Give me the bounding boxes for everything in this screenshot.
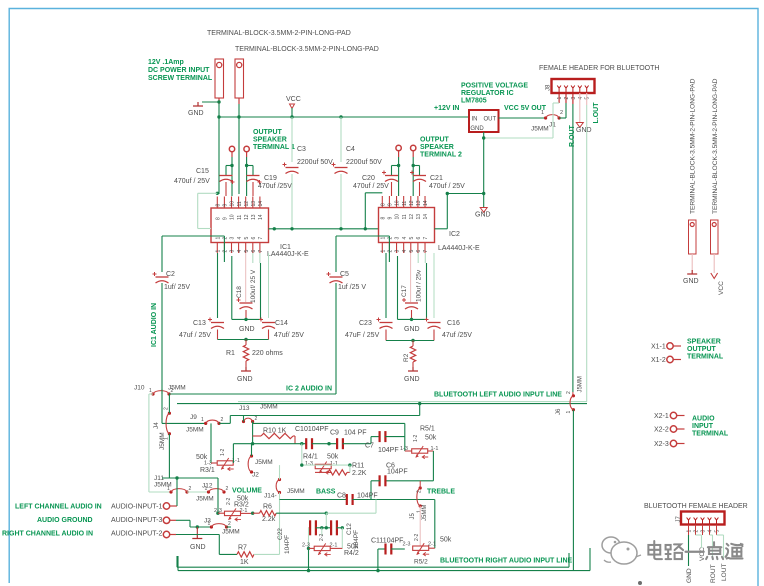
svg-text:6: 6 [251, 237, 257, 240]
svg-text:5: 5 [244, 237, 250, 240]
svg-text:R4/1: R4/1 [303, 454, 318, 461]
capacitor C23 [380, 322, 393, 324]
svg-text:C9: C9 [330, 430, 339, 437]
wire C18 gnd row [232, 318, 261, 320]
svg-text:C14: C14 [275, 320, 288, 327]
svg-text:X1-1: X1-1 [651, 344, 666, 351]
wire J10 left loop [149, 393, 153, 395]
svg-text:TERMINAL-BLOCK-3.5MM-2-PIN-LON: TERMINAL-BLOCK-3.5MM-2-PIN-LONG-PAD [207, 30, 351, 37]
svg-text:2-3: 2-3 [403, 542, 411, 548]
svg-text:BLUETOOTH LEFT AUDIO INPUT LIN: BLUETOOTH LEFT AUDIO INPUT LINE [434, 392, 562, 399]
wire rail 2 [335, 236, 337, 272]
op-amp IC1 LA4440 body [211, 208, 269, 243]
svg-text:3: 3 [701, 530, 707, 533]
svg-text:TERMINAL-BLOCK-3.5MM-2-PIN-LON: TERMINAL-BLOCK-3.5MM-2-PIN-LONG-PAD [690, 78, 697, 214]
svg-text:SPEAKER: SPEAKER [687, 339, 721, 346]
svg-text:J5: J5 [410, 513, 416, 520]
svg-text:R5/2: R5/2 [414, 559, 428, 566]
svg-text:9: 9 [388, 217, 394, 220]
regulator U1 LM7805 body [469, 110, 499, 132]
svg-text:1: 1 [687, 530, 693, 533]
svg-text:J6: J6 [556, 408, 562, 415]
svg-text:2: 2 [223, 237, 229, 240]
capacitor C14 [268, 253, 270, 318]
header J8 pin4 stub [579, 93, 581, 122]
svg-text:470uf / 25V: 470uf / 25V [174, 178, 210, 185]
jumper J5 [419, 486, 422, 489]
IC2 bottom pin stubs [381, 243, 383, 254]
capacitor C4 [340, 117, 342, 162]
wire regulator gnd down [483, 132, 485, 207]
svg-text:J14-: J14- [264, 493, 277, 500]
svg-text:2: 2 [560, 110, 563, 116]
svg-text:1: 1 [557, 97, 563, 100]
svg-text:1: 1 [216, 237, 222, 240]
svg-text:8: 8 [381, 217, 387, 220]
svg-text:2200uf 50V: 2200uf 50V [346, 159, 382, 166]
svg-text:14: 14 [423, 200, 429, 206]
terminal block X3 body [215, 59, 224, 98]
svg-text:R4/2: R4/2 [344, 550, 359, 557]
svg-text:C21: C21 [430, 175, 443, 182]
svg-text:100uf / 25v: 100uf / 25v [416, 269, 423, 302]
svg-text:GND: GND [470, 126, 484, 132]
wire J7 rout [710, 534, 713, 536]
wire J9 to row A [219, 422, 230, 424]
wire IC2 pin2 line [336, 235, 389, 237]
svg-text:6: 6 [416, 250, 422, 253]
svg-text:IC1: IC1 [280, 244, 291, 251]
svg-text:TERMINAL 2: TERMINAL 2 [420, 152, 462, 159]
svg-text:C12: C12 [346, 523, 353, 535]
svg-text:POSITIVE VOLTAGE: POSITIVE VOLTAGE [461, 83, 528, 90]
wire J14 down [279, 465, 281, 479]
svg-text:12: 12 [244, 201, 250, 207]
resistor R2 [412, 341, 414, 347]
svg-text:C3: C3 [297, 146, 306, 153]
svg-text:2200uf 50V: 2200uf 50V [297, 159, 333, 166]
wire C23 C16 row [386, 340, 434, 342]
svg-text:6: 6 [416, 237, 422, 240]
svg-text:4: 4 [402, 250, 408, 253]
svg-text:11: 11 [402, 201, 408, 206]
svg-text:4: 4 [237, 250, 243, 253]
svg-text:J2: J2 [252, 472, 259, 479]
svg-text:C19: C19 [264, 175, 277, 182]
svg-text:1: 1 [164, 437, 170, 440]
svg-text:1: 1 [381, 250, 387, 253]
svg-text:10: 10 [395, 200, 401, 206]
svg-text:3: 3 [571, 97, 577, 100]
svg-text:J4: J4 [153, 422, 160, 429]
IC2 left routing wire [364, 193, 366, 229]
svg-text:FEMALE HEADER FOR BLUETOOTH: FEMALE HEADER FOR BLUETOOTH [539, 65, 659, 72]
svg-text:C7: C7 [365, 443, 374, 450]
wire under IC1 verticals [217, 253, 219, 318]
svg-text:L.OUT: L.OUT [593, 102, 600, 124]
svg-text:5: 5 [244, 250, 250, 253]
svg-text:X2-1: X2-1 [654, 413, 669, 420]
IC1 left routing wire [216, 192, 219, 195]
wire left rail [161, 236, 163, 272]
wire speaker2 B [412, 157, 414, 196]
header J7 pin stubs [688, 525, 690, 536]
svg-text:J8: J8 [546, 84, 552, 91]
header J7 body [681, 512, 725, 525]
svg-text:GND: GND [188, 110, 204, 117]
svg-text:1: 1 [416, 510, 422, 513]
wire C11 left down [377, 549, 379, 571]
svg-text:C10104PF: C10104PF [295, 426, 328, 433]
wire J7 lout [717, 534, 724, 536]
capacitor C2 [156, 276, 169, 278]
svg-text:470uf / 25V: 470uf / 25V [353, 183, 389, 190]
wire left rail to J9 [161, 394, 163, 423]
svg-text:7: 7 [423, 250, 429, 253]
svg-text:AUDIO-INPUT-1: AUDIO-INPUT-1 [111, 504, 162, 511]
svg-text:SPEAKER: SPEAKER [420, 144, 454, 151]
svg-text:10: 10 [395, 214, 401, 220]
svg-text:J5MM: J5MM [422, 505, 428, 521]
svg-text:+12V IN: +12V IN [434, 105, 460, 112]
svg-text:GND: GND [237, 376, 253, 383]
wire between C10 C9 [312, 443, 338, 445]
svg-text:J13: J13 [239, 405, 250, 412]
wire row C10 C9 [233, 443, 306, 445]
svg-text:AUDIO-INPUT-3: AUDIO-INPUT-3 [111, 517, 162, 524]
svg-text:2-2: 2-2 [414, 534, 420, 541]
svg-text:13: 13 [416, 200, 422, 206]
svg-text:47uf / 25V: 47uf / 25V [179, 332, 211, 339]
IC1 bottom pin stubs [216, 243, 218, 254]
svg-text:2: 2 [226, 486, 229, 492]
ground power input [202, 101, 219, 103]
svg-text:TERMINAL 1: TERMINAL 1 [253, 144, 295, 151]
svg-text:104PF: 104PF [357, 493, 378, 500]
svg-text:2: 2 [223, 250, 229, 253]
wire gnd branch to IC2 [447, 193, 483, 195]
header J8 pin5 stub [586, 93, 588, 105]
svg-text:470uf / 25V: 470uf / 25V [429, 183, 465, 190]
svg-text:2: 2 [255, 416, 258, 422]
resistor R1 [245, 340, 247, 346]
capacitor C17 [410, 253, 412, 302]
capacitor C13 [211, 322, 224, 324]
svg-text:1: 1 [566, 411, 572, 414]
svg-text:BLUETOOTH FEMALE HEADER: BLUETOOTH FEMALE HEADER [644, 503, 748, 510]
svg-text:C20: C20 [362, 175, 375, 182]
svg-text:1uf /25 V: 1uf /25 V [338, 284, 366, 291]
svg-text:GND: GND [404, 326, 420, 333]
svg-text:GND: GND [576, 127, 592, 134]
jumper J1 [544, 116, 547, 119]
svg-text:7: 7 [258, 237, 264, 240]
svg-text:R6: R6 [263, 504, 272, 511]
svg-text:13: 13 [416, 214, 422, 220]
svg-text:1: 1 [167, 486, 170, 492]
jumper J4 [168, 412, 171, 415]
svg-text:2: 2 [388, 237, 394, 240]
ground bluetooth header [576, 123, 583, 128]
svg-text:J5MM: J5MM [255, 459, 273, 466]
wire speaker1 A [231, 157, 233, 196]
wire C17 gnd row [398, 318, 427, 320]
svg-text:C4: C4 [346, 146, 355, 153]
svg-text:2-2: 2-2 [226, 498, 232, 505]
svg-text:IC1 AUDIO IN: IC1 AUDIO IN [151, 303, 158, 347]
svg-text:AUDIO GROUND: AUDIO GROUND [37, 517, 93, 524]
wire bus below caps [269, 228, 379, 230]
svg-text:11: 11 [237, 215, 243, 220]
svg-text:ROUT: ROUT [710, 564, 717, 583]
svg-text:R5/1: R5/1 [420, 426, 435, 433]
svg-text:12V .1Amp: 12V .1Amp [148, 59, 184, 66]
wire dark bluetooth left [177, 403, 587, 405]
terminal block body VCC [711, 220, 719, 254]
svg-text:10: 10 [230, 201, 236, 207]
svg-text:IN: IN [472, 117, 478, 123]
svg-text:11: 11 [402, 214, 408, 219]
svg-text:2: 2 [171, 388, 174, 394]
svg-text:X2-2: X2-2 [654, 427, 669, 434]
speaker terminal 2 pin A [396, 145, 401, 150]
svg-text:2: 2 [388, 250, 394, 253]
svg-text:GND: GND [686, 568, 693, 583]
svg-text:VCC: VCC [286, 96, 301, 103]
svg-text:220 ohms: 220 ohms [252, 350, 283, 357]
svg-text:11: 11 [237, 201, 243, 206]
ground R1 [241, 367, 251, 371]
speaker terminal 1 pin B [244, 146, 249, 151]
svg-text:GND: GND [475, 212, 491, 219]
svg-text:50k: 50k [327, 454, 339, 461]
wire box right audio line [177, 566, 569, 568]
svg-text:C23: C23 [359, 320, 372, 327]
svg-text:X2-3: X2-3 [654, 441, 669, 448]
svg-text:104PF: 104PF [387, 469, 408, 476]
svg-text:TERMINAL: TERMINAL [692, 431, 729, 438]
svg-text:X1-2: X1-2 [651, 357, 666, 364]
svg-text:5: 5 [585, 97, 591, 100]
speaker terminal 1 pin A [229, 146, 234, 151]
wire J7 gnd [688, 535, 690, 566]
svg-text:2: 2 [164, 407, 170, 410]
svg-text:BLUETOOTH RIGHT AUDIO INPUT LI: BLUETOOTH RIGHT AUDIO INPUT LINE [440, 558, 573, 565]
svg-text:GND: GND [190, 544, 206, 551]
svg-text:3: 3 [395, 250, 401, 253]
wire speaker2 A [398, 157, 400, 196]
jumper J6 [572, 394, 575, 397]
svg-text:3: 3 [230, 250, 236, 253]
svg-text:C15: C15 [196, 168, 209, 175]
wire input3 to J3 [176, 519, 190, 521]
svg-text:47uF / 25V: 47uF / 25V [345, 332, 380, 339]
svg-text:1uf/ 25V: 1uf/ 25V [164, 284, 190, 291]
svg-text:R7: R7 [238, 545, 247, 552]
svg-text:OUTPUT: OUTPUT [253, 129, 283, 136]
wire regulator out [499, 117, 546, 119]
svg-text:GND: GND [404, 376, 420, 383]
svg-text:AUDIO: AUDIO [692, 416, 715, 423]
svg-text:J5MM: J5MM [196, 496, 214, 503]
wire C22 C12 wiper stub [321, 528, 323, 535]
wire J1 to header pin2 [559, 117, 566, 119]
capacitor C21 [419, 166, 421, 176]
svg-text:8: 8 [216, 217, 222, 220]
svg-text:1: 1 [541, 110, 544, 116]
svg-text:8: 8 [216, 204, 222, 207]
header J8 pin3 stub [572, 93, 574, 104]
capacitor C19 [252, 166, 254, 176]
svg-text:4: 4 [237, 237, 243, 240]
op-amp IC2 LA4440 body [379, 208, 435, 243]
svg-text:2: 2 [416, 490, 422, 493]
watermark logo [602, 537, 641, 564]
svg-text:R3/1: R3/1 [200, 467, 215, 474]
wire C13 C14 row [218, 339, 269, 341]
svg-text:C13: C13 [193, 320, 206, 327]
svg-text:J5MM: J5MM [578, 376, 584, 392]
wire pin1 gnd loop [553, 102, 559, 104]
terminal block X4 body [235, 59, 244, 98]
svg-text:INPUT: INPUT [692, 423, 714, 430]
svg-text:LEFT CHANNEL AUDIO IN: LEFT CHANNEL AUDIO IN [15, 504, 102, 511]
wire +12V bus [218, 116, 469, 118]
capacitor C20 [391, 166, 393, 176]
wire R.OUT to bottom [572, 410, 574, 571]
terminal block body GND [689, 220, 697, 254]
svg-text:7: 7 [258, 250, 264, 253]
wire speaker1 B [246, 157, 248, 196]
header J8 pin2 stub [565, 93, 567, 103]
watermark text [648, 541, 662, 559]
svg-text:12: 12 [244, 214, 250, 220]
svg-text:9: 9 [223, 217, 229, 220]
svg-text:LA4440J-K-E: LA4440J-K-E [267, 251, 309, 258]
svg-text:14: 14 [423, 214, 429, 220]
svg-text:9: 9 [388, 203, 394, 206]
svg-text:2: 2 [566, 391, 572, 394]
svg-text:4: 4 [402, 237, 408, 240]
svg-text:TREBLE: TREBLE [427, 489, 455, 496]
svg-text:1-2: 1-2 [220, 449, 226, 456]
svg-text:1-2: 1-2 [413, 435, 419, 442]
svg-text:1: 1 [205, 486, 208, 492]
svg-text:SPEAKER: SPEAKER [253, 137, 287, 144]
capacitor C5 [330, 276, 343, 278]
svg-text:BASS: BASS [316, 489, 336, 496]
svg-text:104PF: 104PF [284, 535, 291, 554]
svg-text:C5: C5 [340, 271, 349, 278]
IC1 top pin stubs [216, 197, 218, 209]
svg-text:12: 12 [409, 214, 415, 220]
svg-text:J5MM: J5MM [222, 529, 240, 536]
svg-text:3: 3 [395, 237, 401, 240]
wire R.OUT vertical [572, 104, 574, 392]
svg-text:J5MM: J5MM [260, 404, 278, 411]
svg-text:5: 5 [409, 250, 415, 253]
svg-text:13: 13 [251, 214, 257, 220]
svg-text:LA4440J-K-E: LA4440J-K-E [438, 245, 480, 252]
svg-text:1: 1 [149, 388, 152, 394]
wire terminal vcc stub [713, 254, 715, 273]
svg-text:C17: C17 [401, 285, 408, 297]
svg-text:IC2: IC2 [449, 231, 460, 238]
svg-text:GND: GND [239, 326, 255, 333]
wire J10 to box [161, 389, 163, 394]
svg-text:2.2k: 2.2k [262, 516, 276, 523]
svg-text:2: 2 [221, 417, 224, 423]
svg-text:50k: 50k [425, 435, 437, 442]
svg-text:DC POWER INPUT: DC POWER INPUT [148, 67, 210, 74]
svg-text:RIGHT CHANNEL AUDIO IN: RIGHT CHANNEL AUDIO IN [2, 531, 93, 538]
wire J13 down [252, 422, 254, 444]
svg-text:J9: J9 [190, 414, 197, 421]
svg-text:C18: C18 [236, 286, 243, 298]
svg-text:6: 6 [251, 250, 257, 253]
svg-text:4: 4 [578, 97, 584, 100]
svg-text:R11: R11 [352, 463, 364, 470]
capacitor C3 [291, 117, 293, 162]
capacitor C18 [245, 253, 247, 302]
svg-text:VOLUME: VOLUME [232, 488, 262, 495]
svg-text:5: 5 [409, 237, 415, 240]
svg-text:12: 12 [409, 200, 415, 206]
svg-text:7: 7 [423, 237, 429, 240]
wire J7 vcc [696, 534, 702, 536]
svg-text:2-2: 2-2 [319, 534, 325, 541]
svg-text:J7: J7 [676, 516, 682, 523]
wire bottom bus [178, 570, 590, 572]
svg-text:OUTPUT: OUTPUT [420, 137, 450, 144]
wire pale mid [301, 444, 303, 465]
svg-text:SCREW TERMINAL: SCREW TERMINAL [148, 75, 213, 82]
svg-text:470uf /25V: 470uf /25V [258, 183, 292, 190]
svg-text:4: 4 [708, 530, 714, 533]
wire terminal gnd stub [691, 254, 693, 271]
svg-text:10: 10 [230, 214, 236, 220]
svg-text:OUT: OUT [484, 117, 497, 123]
svg-text:J10: J10 [134, 385, 145, 392]
svg-text:LOUT: LOUT [721, 563, 728, 581]
svg-text:R1: R1 [226, 350, 235, 357]
svg-text:8: 8 [381, 203, 387, 206]
svg-text:2: 2 [228, 521, 231, 527]
svg-text:J5MM: J5MM [159, 432, 166, 450]
svg-text:1: 1 [216, 250, 222, 253]
svg-text:1: 1 [201, 417, 204, 423]
svg-text:14: 14 [258, 201, 264, 207]
wire R4/2 to bottom [308, 548, 310, 570]
svg-text:2: 2 [694, 530, 700, 533]
svg-text:TERMINAL-BLOCK-3.5MM-2-PIN-LON: TERMINAL-BLOCK-3.5MM-2-PIN-LONG-PAD [235, 46, 379, 53]
svg-text:OUTPUT: OUTPUT [687, 346, 717, 353]
svg-text:2: 2 [189, 486, 192, 492]
wire terminal A down [218, 98, 220, 104]
svg-text:R2: R2 [403, 353, 410, 362]
capacitor C15 [225, 166, 227, 176]
svg-text:J5MM: J5MM [186, 427, 204, 434]
wire IC1 pin2 line [162, 235, 224, 237]
svg-text:VCC: VCC [699, 547, 706, 561]
svg-text:1K: 1K [240, 559, 249, 566]
svg-text:104 PF: 104 PF [344, 430, 367, 437]
svg-text:47uf /25V: 47uf /25V [442, 332, 472, 339]
svg-text:J5MM: J5MM [531, 126, 549, 133]
wire input1 up [176, 478, 178, 506]
svg-text:1: 1 [381, 237, 387, 240]
svg-text:2: 2 [564, 97, 570, 100]
